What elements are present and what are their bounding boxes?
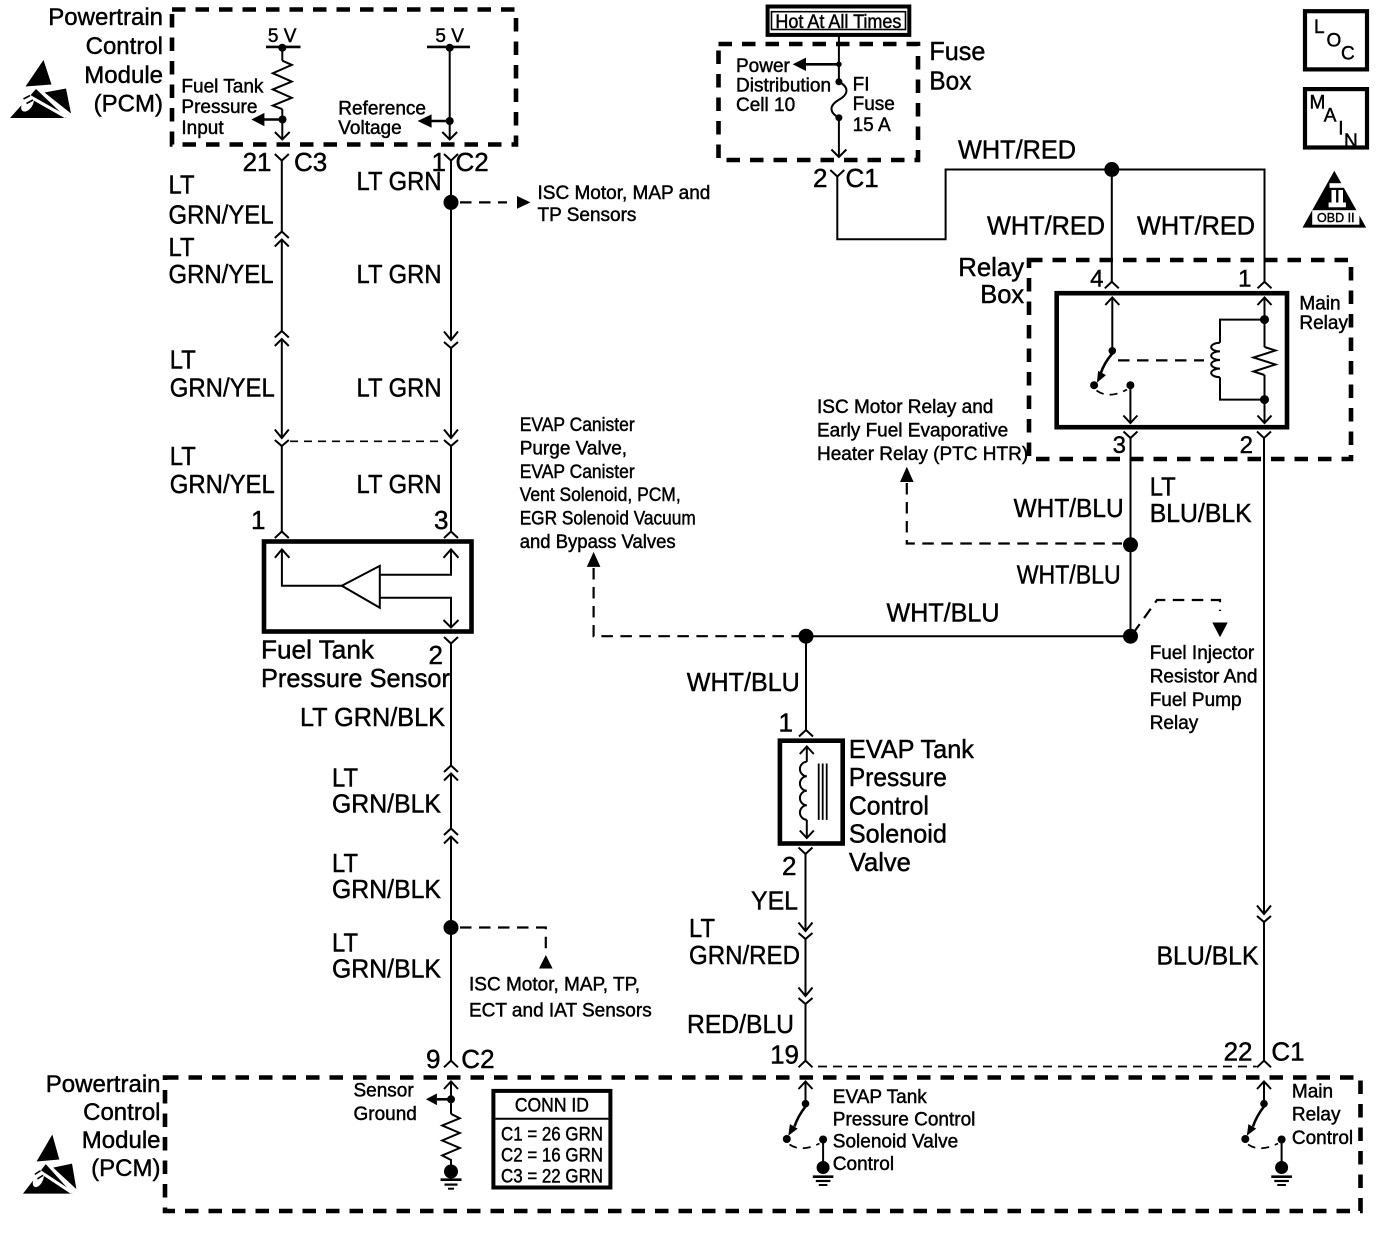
svg-text:and Bypass Valves: and Bypass Valves — [520, 532, 676, 553]
wire from fuse to pin 2 with down arrowhead — [838, 118, 840, 157]
relay shunt resistor — [1254, 347, 1276, 375]
wire YEL segment — [805, 854, 807, 931]
svg-text:2: 2 — [782, 851, 796, 881]
svg-text:L: L — [1314, 17, 1325, 38]
svg-text:YEL: YEL — [751, 886, 798, 916]
wire below resistor — [281, 109, 283, 139]
svg-text:Heater Relay (PTC HTR): Heater Relay (PTC HTR) — [817, 444, 1028, 465]
svg-text:Control: Control — [849, 790, 929, 820]
svg-text:Solenoid Valve: Solenoid Valve — [833, 1132, 958, 1153]
valve internal arrow down — [806, 820, 808, 838]
svg-text:LT: LT — [170, 345, 196, 375]
svg-text:ECT and IAT Sensors: ECT and IAT Sensors — [469, 1000, 652, 1021]
svg-text:BLU/BLK: BLU/BLK — [1157, 941, 1260, 971]
Hot At All Times tag — [768, 7, 910, 35]
svg-text:LT GRN/BLK: LT GRN/BLK — [300, 702, 446, 732]
junction dot reference voltage — [446, 117, 454, 125]
wire LT GRN/BLK segment 3 — [450, 837, 452, 1061]
EVAP control switch arm with arrowhead — [795, 1107, 806, 1127]
svg-text:EVAP Canister: EVAP Canister — [520, 462, 636, 483]
CONN ID table — [493, 1091, 610, 1188]
Fuse Box dashed box — [719, 44, 919, 160]
svg-text:Fuel Injector: Fuel Injector — [1150, 643, 1255, 664]
svg-text:Relay: Relay — [1150, 713, 1199, 734]
5V supply bar (left) — [266, 46, 301, 49]
inline connector (down) on LT GRN — [444, 332, 458, 341]
connector C1 pin 22 (lambda) — [1257, 1061, 1271, 1068]
connector pin 19 (lambda) — [799, 1061, 813, 1068]
svg-text:O: O — [1327, 31, 1342, 52]
svg-text:Valve: Valve — [849, 847, 911, 877]
svg-text:Pressure Sensor: Pressure Sensor — [261, 663, 450, 693]
svg-text:LT: LT — [170, 441, 196, 471]
svg-text:C2: C2 — [456, 147, 489, 177]
svg-text:A: A — [1324, 106, 1337, 127]
svg-text:Module: Module — [82, 1127, 161, 1154]
wire LT GRN/BLK segment 1 — [450, 644, 452, 766]
inline connector (up) on LT GRN/BLK — [444, 766, 458, 773]
inline connector (down) on BLU/BLK — [1257, 906, 1271, 915]
Main relay switch dashed throw arc — [1248, 1144, 1278, 1149]
FI Fuse 15 A element — [835, 78, 842, 85]
svg-text:Sensor: Sensor — [354, 1080, 415, 1101]
relay coil dot bottom — [1260, 395, 1269, 404]
harness tie dashed line — [290, 440, 444, 442]
relay switch common arrow (pin 4) — [1105, 298, 1119, 306]
svg-text:WHT/RED: WHT/RED — [987, 211, 1105, 241]
svg-text:N: N — [1344, 131, 1358, 152]
dashed reference to ISC Motor Relay — [907, 483, 1122, 544]
svg-text:RED/BLU: RED/BLU — [687, 1009, 794, 1039]
PCM bottom dashed box — [165, 1078, 1361, 1212]
dashed reference to EVAP Canister devices — [587, 552, 601, 567]
EVAP Tank Pressure Control Solenoid Valve box — [780, 741, 843, 844]
Main Relay box — [1057, 293, 1287, 427]
sensor output top to pin3 — [380, 549, 451, 574]
EVAP control switch dashed throw arc — [790, 1144, 820, 1149]
Main relay wire to ground — [1281, 1143, 1283, 1162]
svg-text:3: 3 — [434, 505, 448, 535]
svg-text:Relay: Relay — [958, 252, 1024, 282]
svg-text:C3 = 22 GRN: C3 = 22 GRN — [501, 1167, 603, 1188]
svg-text:21: 21 — [243, 147, 272, 177]
Main relay switch arm with arrowhead — [1253, 1107, 1264, 1127]
Sensor Ground arrow — [437, 1098, 451, 1101]
svg-text:Vent Solenoid, PCM,: Vent Solenoid, PCM, — [520, 485, 681, 506]
svg-text:C1 = 26 GRN: C1 = 26 GRN — [501, 1125, 603, 1146]
5V feed dot (left) — [278, 44, 286, 52]
relay output wire to pin 3 with down arrowhead — [1129, 389, 1131, 423]
5V supply bar (right) — [427, 46, 470, 49]
WHT/RED wire to relay pin 4 — [1111, 170, 1113, 282]
inline connector (up) on LT GRN/BLK — [444, 829, 458, 836]
svg-text:Module: Module — [84, 62, 163, 89]
svg-text:Relay: Relay — [1299, 313, 1348, 334]
ESD warning symbol (bottom left) — [23, 1135, 76, 1194]
WHT/RED junction dot — [1104, 162, 1119, 177]
svg-text:OBD II: OBD II — [1317, 211, 1355, 225]
Main relay switch pivot dot — [1260, 1100, 1268, 1108]
dashed reference to Fuel Injector Resistor — [1133, 600, 1220, 634]
sensor output bottom to pin2 — [380, 598, 451, 628]
wire BLU/BLK lower segment — [1263, 922, 1265, 1061]
svg-text:LT: LT — [689, 913, 715, 943]
relay switch arm with arrowhead — [1101, 354, 1113, 375]
Fuel Tank Pressure Input arrow — [263, 118, 283, 121]
Reference Voltage arrow — [430, 120, 450, 123]
svg-text:Relay: Relay — [1292, 1105, 1341, 1126]
connector C2 pin 1 (Y) — [444, 154, 458, 161]
sensor ground junction dot — [447, 1095, 455, 1103]
Main relay output contact dot — [1278, 1136, 1286, 1144]
svg-text:Box: Box — [929, 66, 971, 96]
svg-text:C2 = 16 GRN: C2 = 16 GRN — [501, 1146, 603, 1167]
valve solenoid coil — [800, 762, 807, 820]
junction dot power distribution — [836, 62, 842, 68]
svg-text:Hot At All Times: Hot At All Times — [775, 12, 901, 33]
LOC tag — [1305, 11, 1367, 69]
svg-text:ISC Motor Relay and: ISC Motor Relay and — [817, 397, 993, 418]
Main relay switch contact dot — [1241, 1135, 1249, 1143]
svg-text:C1: C1 — [846, 163, 879, 193]
relay pin 3 connector (Y) — [1124, 432, 1138, 439]
svg-text:Early Fuel Evaporative: Early Fuel Evaporative — [817, 420, 1008, 441]
OBD II tag — [1303, 171, 1367, 228]
dashed reference to ISC Motor, MAP, TP, ECT and IAT Sensors — [460, 928, 546, 954]
svg-text:Input: Input — [181, 118, 224, 139]
Fuel Tank Pressure Sensor box — [264, 542, 472, 632]
svg-text:15 A: 15 A — [853, 115, 891, 136]
svg-text:ISC Motor, MAP, TP,: ISC Motor, MAP, TP, — [469, 975, 640, 996]
wire from 5V to resistor — [281, 48, 283, 61]
svg-text:CONN ID: CONN ID — [515, 1096, 589, 1117]
svg-text:Power: Power — [736, 56, 791, 77]
svg-text:Fuel Pump: Fuel Pump — [1150, 690, 1242, 711]
junction dot left — [799, 629, 814, 644]
svg-text:LT: LT — [169, 232, 195, 262]
valve pin 1 connector (lambda) — [799, 730, 813, 737]
svg-text:LT GRN: LT GRN — [357, 469, 442, 499]
wire BLU/BLK from relay pin 2 — [1263, 438, 1265, 914]
relay switch output contact dot — [1126, 381, 1134, 389]
relay switch pivot dot — [1109, 347, 1117, 355]
relay pin2 internal wire with down arrowhead — [1264, 375, 1266, 423]
ground symbol (pin 9) — [444, 1165, 458, 1179]
svg-text:Fuel Tank: Fuel Tank — [261, 635, 375, 665]
valve core bars — [819, 764, 827, 820]
EVAP control switch contact dot — [783, 1135, 791, 1143]
svg-text:Ground: Ground — [354, 1104, 417, 1125]
ground symbol (pin 22 driver) — [1275, 1161, 1288, 1174]
svg-text:I: I — [1338, 119, 1343, 140]
wire LT GRN/YEL segment 3 — [281, 339, 283, 438]
wire WHT/BLU down to valve pin 1 — [805, 636, 807, 730]
svg-text:GRN/YEL: GRN/YEL — [170, 469, 275, 499]
inline connector (up) on LT GRN/YEL — [275, 331, 289, 338]
svg-text:GRN/RED: GRN/RED — [689, 940, 800, 970]
svg-text:Fuel Tank: Fuel Tank — [181, 77, 264, 98]
svg-text:2: 2 — [813, 163, 827, 193]
svg-text:4: 4 — [1090, 266, 1103, 293]
main WHT/BLU horizontal wire — [806, 635, 1131, 637]
junction dot WHT/BLU — [1123, 537, 1138, 552]
relay switch contact dot (NO) — [1090, 381, 1098, 389]
sensor pin 3 connector (lambda) — [444, 532, 458, 539]
wire LT GRN segment 3 — [450, 446, 452, 532]
svg-text:2: 2 — [1240, 432, 1253, 459]
ground symbol (pin 19 driver) — [817, 1161, 830, 1174]
svg-text:Voltage: Voltage — [338, 118, 401, 139]
svg-text:Solenoid: Solenoid — [849, 819, 947, 849]
svg-text:LT GRN: LT GRN — [357, 259, 442, 289]
relay pin 1 connector (lambda) — [1258, 282, 1272, 289]
WHT/RED wire from fuse to relay box — [837, 170, 1264, 282]
Relay Box dashed box — [1029, 260, 1351, 459]
valve pin 2 connector (Y) — [799, 848, 813, 855]
wire LT GRN/RED segment — [805, 939, 807, 996]
svg-text:LT: LT — [169, 170, 195, 200]
wire LT GRN/YEL segment 2 — [281, 240, 283, 332]
sensor pin 2 connector (Y) — [444, 637, 458, 644]
inline connector (down) on valve wire 2 — [799, 988, 813, 997]
wire LT GRN/YEL segment 4 — [281, 446, 283, 532]
svg-text:GRN/YEL: GRN/YEL — [170, 372, 275, 402]
relay pin 2 connector (Y) — [1257, 432, 1271, 439]
harness tie dotted line 19 to 22 — [818, 1066, 1257, 1068]
svg-text:22: 22 — [1224, 1037, 1253, 1067]
svg-text:BLU/BLK: BLU/BLK — [1150, 498, 1253, 528]
svg-text:Purge Valve,: Purge Valve, — [520, 438, 627, 459]
svg-text:Fuse: Fuse — [929, 36, 985, 66]
sensor internal input arrow (pin1) — [275, 549, 290, 557]
down arrowhead to pin 21 — [275, 132, 290, 140]
wire from Hot At All Times into fuse box — [838, 35, 840, 82]
svg-text:GRN/BLK: GRN/BLK — [332, 874, 442, 904]
svg-text:GRN/BLK: GRN/BLK — [332, 953, 442, 983]
svg-text:C: C — [1341, 44, 1355, 65]
svg-text:LT GRN: LT GRN — [357, 166, 442, 196]
EVAP control wire to ground — [822, 1143, 824, 1162]
svg-text:WHT/RED: WHT/RED — [958, 134, 1076, 164]
svg-text:Pressure Control: Pressure Control — [833, 1110, 976, 1131]
wire WHT/BLU from relay pin 3 — [1130, 438, 1132, 636]
Power Distribution Cell 10 arrow — [805, 63, 839, 66]
EVAP control output contact dot — [819, 1136, 827, 1144]
sensor pin 1 connector (lambda) — [275, 532, 289, 539]
wire LT GRN/YEL segment 1 — [281, 161, 283, 232]
svg-text:19: 19 — [770, 1040, 799, 1070]
Main relay driver arrow (pin 22) — [1257, 1082, 1271, 1090]
svg-text:Distribution: Distribution — [736, 76, 831, 97]
svg-text:Control: Control — [86, 33, 163, 60]
svg-text:ISC Motor, MAP and: ISC Motor, MAP and — [538, 183, 711, 204]
PCM top dashed box — [172, 10, 516, 145]
EVAP control driver arrow (pin 19) — [799, 1082, 813, 1090]
svg-text:GRN/YEL: GRN/YEL — [169, 259, 274, 289]
relay pin 4 connector (lambda) — [1105, 282, 1119, 289]
junction dot right — [1123, 629, 1138, 644]
ESD warning symbol (top left) — [10, 60, 71, 118]
pull-up resistor R (Fuel Tank Pressure Input) — [273, 61, 292, 109]
svg-text:(PCM): (PCM) — [91, 1155, 160, 1182]
svg-text:Pressure: Pressure — [849, 762, 947, 792]
valve internal arrow up — [800, 747, 814, 755]
svg-text:EGR Solenoid Vacuum: EGR Solenoid Vacuum — [520, 508, 696, 529]
svg-text:3: 3 — [1113, 432, 1126, 459]
wire LT GRN segment 2 — [450, 348, 452, 438]
5V feed dot (right) — [446, 44, 454, 52]
svg-text:Reference: Reference — [338, 98, 426, 119]
svg-text:GRN/BLK: GRN/BLK — [332, 789, 442, 819]
relay coil — [1211, 343, 1220, 377]
relay coil bottom wire — [1220, 377, 1265, 399]
down arrowhead to pin 1 — [442, 132, 457, 140]
connector C3 pin 21 (Y) — [275, 154, 289, 161]
PCM internal resistor — [442, 1114, 460, 1165]
junction dot LT GRN/BLK — [444, 920, 459, 935]
relay pin1 internal arrow — [1258, 298, 1272, 306]
svg-text:WHT/BLU: WHT/BLU — [1017, 560, 1121, 590]
sensor amplifier triangle — [342, 566, 380, 608]
svg-text:FI: FI — [853, 75, 870, 96]
svg-text:Cell 10: Cell 10 — [736, 95, 795, 116]
inline connector (up) on LT GRN/YEL — [275, 232, 289, 239]
svg-text:1: 1 — [251, 505, 265, 535]
svg-text:WHT/RED: WHT/RED — [1137, 211, 1255, 241]
svg-text:WHT/BLU: WHT/BLU — [1014, 493, 1124, 523]
svg-text:(PCM): (PCM) — [94, 90, 163, 117]
svg-text:Main: Main — [1292, 1081, 1333, 1102]
inline connector (down) on LT GRN/YEL — [275, 430, 289, 439]
wire LT GRN/BLK segment 2 — [450, 774, 452, 829]
junction dot LT GRN — [444, 195, 459, 210]
svg-text:Control: Control — [833, 1154, 894, 1175]
svg-text:Resistor And: Resistor And — [1150, 666, 1258, 687]
svg-text:WHT/BLU: WHT/BLU — [687, 667, 800, 697]
connector C2 pin 9 (lambda) — [444, 1061, 458, 1068]
inline connector (down) on valve wire — [799, 923, 813, 932]
svg-text:WHT/BLU: WHT/BLU — [887, 598, 1000, 628]
svg-text:Pressure: Pressure — [181, 97, 257, 118]
svg-text:LT GRN: LT GRN — [357, 372, 442, 402]
reference voltage wire — [449, 48, 451, 139]
svg-text:1: 1 — [779, 708, 793, 738]
MAIN tag — [1305, 89, 1367, 147]
inline connector (down) on LT GRN — [444, 430, 458, 439]
relay switch dashed throw arc — [1097, 390, 1128, 395]
relay mechanical link dashed — [1118, 359, 1204, 361]
relay coil dot top — [1260, 315, 1269, 324]
svg-text:9: 9 — [426, 1044, 440, 1074]
wire LT GRN segment 1 — [450, 161, 452, 340]
sensor ground internal arrow (pin 9) — [444, 1082, 458, 1090]
junction dot below resistor — [279, 116, 287, 124]
svg-text:C3: C3 — [294, 147, 327, 177]
connector C1 pin 2 (Y) — [830, 170, 844, 177]
dashed reference to ISC Motor, MAP and TP Sensors — [460, 201, 507, 203]
svg-text:Powertrain: Powertrain — [46, 1071, 161, 1098]
svg-text:GRN/YEL: GRN/YEL — [169, 200, 274, 230]
svg-text:EVAP Tank: EVAP Tank — [849, 734, 975, 764]
svg-text:Box: Box — [980, 279, 1024, 309]
svg-text:Control: Control — [1292, 1128, 1353, 1149]
EVAP control switch pivot dot — [802, 1100, 810, 1108]
svg-text:Control: Control — [83, 1099, 160, 1126]
svg-text:Main: Main — [1299, 294, 1340, 315]
svg-text:Powertrain: Powertrain — [48, 4, 163, 31]
svg-text:Fuse: Fuse — [853, 94, 895, 115]
svg-text:C2: C2 — [461, 1044, 494, 1074]
svg-text:C1: C1 — [1271, 1037, 1304, 1067]
relay coil top wire — [1220, 320, 1265, 343]
svg-text:1: 1 — [1238, 266, 1251, 293]
svg-text:EVAP Canister: EVAP Canister — [520, 415, 636, 436]
svg-text:TP Sensors: TP Sensors — [538, 205, 637, 226]
wire RED/BLU segment — [805, 1004, 807, 1061]
svg-text:EVAP Tank: EVAP Tank — [833, 1087, 928, 1108]
